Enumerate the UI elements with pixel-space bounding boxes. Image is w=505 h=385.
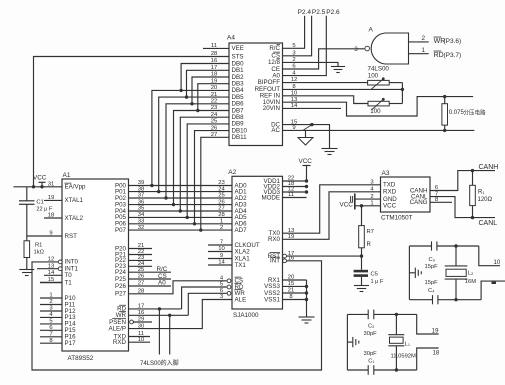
svg-text:VCC: VCC bbox=[299, 158, 313, 165]
wire pot junction vertical bbox=[401, 83, 403, 104]
capacitor C4 15pF bbox=[425, 280, 439, 304]
wire crystal2 top rail bbox=[347, 313, 416, 315]
svg-text:20VIN: 20VIN bbox=[263, 105, 280, 112]
wire P04/AD4 bus row bbox=[129, 210, 233, 212]
svg-text:ALE: ALE bbox=[235, 296, 247, 303]
wires P10-P17 stubs bbox=[40, 298, 62, 343]
svg-text:16M: 16M bbox=[465, 279, 476, 285]
ground below VSS bbox=[299, 317, 315, 323]
svg-text:120Ω: 120Ω bbox=[478, 197, 493, 203]
wire P07/AD7 bus row bbox=[129, 229, 233, 231]
svg-text:A4: A4 bbox=[227, 35, 235, 42]
wire crystal1 to pin 9 bbox=[481, 281, 505, 300]
svg-text:74LS00的入脚: 74LS00的入脚 bbox=[140, 359, 179, 367]
wire crystal2 to pin 19 bbox=[417, 314, 439, 334]
CAN controller A2 SJA1000 bbox=[218, 169, 295, 319]
svg-text:P2.5: P2.5 bbox=[312, 9, 326, 16]
wire CANH to bus bbox=[430, 171, 495, 191]
wire P26 A0 net bbox=[129, 280, 172, 287]
wire crystal2 bottom rail bbox=[347, 369, 416, 371]
svg-text:P17: P17 bbox=[65, 340, 77, 347]
wire RP1 right to node bbox=[389, 82, 402, 84]
wire P27 to SJA1000 CS bbox=[129, 281, 227, 294]
wires VDD1-MODE to VCC bbox=[283, 179, 309, 197]
svg-text:P25: P25 bbox=[115, 276, 127, 283]
wire TX0 to CTM TXD bbox=[283, 185, 381, 233]
svg-text:AT89S52: AT89S52 bbox=[68, 355, 94, 362]
svg-text:18: 18 bbox=[433, 351, 440, 357]
wire WR branch to 74LS00 input bbox=[169, 315, 171, 354]
svg-text:P2.4: P2.4 bbox=[298, 9, 312, 16]
svg-text:EA/Vpp: EA/Vpp bbox=[65, 184, 87, 191]
wire CANL to bus bbox=[430, 197, 495, 218]
wire P06/AD6 bus row bbox=[129, 223, 233, 225]
svg-text:VEE: VEE bbox=[232, 45, 244, 52]
svg-text:BIPOFF: BIPOFF bbox=[258, 79, 281, 86]
wire DB4 to P0 bus bbox=[150, 90, 229, 187]
bubble A2 INT bbox=[283, 259, 287, 263]
wire ALE to SJA1000 ALE bbox=[129, 300, 233, 329]
svg-text:T0: T0 bbox=[65, 272, 73, 279]
svg-text:AC: AC bbox=[271, 127, 280, 134]
wire T1 stub bbox=[40, 282, 62, 284]
svg-text:RST: RST bbox=[65, 233, 78, 240]
wire INT1 stub bbox=[37, 268, 58, 270]
wire XTAL1 stub bbox=[44, 199, 62, 201]
svg-text:RXD: RXD bbox=[383, 189, 397, 196]
ground below C5 bbox=[354, 277, 369, 292]
svg-text:XLA2: XLA2 bbox=[235, 248, 251, 255]
wire REFOUT pin 8 to pot node bbox=[283, 88, 405, 91]
power VCC above A2 bbox=[299, 158, 313, 181]
ground crystal1 bbox=[409, 268, 421, 278]
wire P03/AD3 bus row bbox=[129, 204, 233, 206]
svg-text:R1: R1 bbox=[35, 243, 42, 249]
svg-text:27: 27 bbox=[218, 206, 225, 212]
wire A3 GND row bbox=[355, 198, 381, 200]
svg-text:MODE: MODE bbox=[261, 194, 280, 201]
svg-text:P27: P27 bbox=[115, 291, 127, 298]
wire 20VIN pin 14 stub bbox=[283, 107, 342, 109]
resistor R7 bbox=[359, 206, 374, 248]
wire DB2 cross-tie to DB6 bbox=[190, 77, 229, 106]
wire A3 VCC row bbox=[355, 204, 381, 207]
wire REF IN pin 10 to RP2 bbox=[283, 96, 369, 104]
svg-text:15pF: 15pF bbox=[425, 280, 439, 286]
resistor R 0.075 shunt bbox=[442, 95, 486, 132]
wire DB9 to P0 bus bbox=[186, 124, 230, 219]
svg-text:A0: A0 bbox=[158, 280, 166, 287]
svg-text:10: 10 bbox=[494, 260, 501, 266]
svg-text:(P3.7): (P3.7) bbox=[444, 52, 462, 59]
wire 12/8 pin 2 to ground bbox=[283, 62, 339, 66]
svg-text:CANL: CANL bbox=[479, 220, 498, 227]
svg-text:C5: C5 bbox=[371, 271, 378, 277]
wire DB10 to P0 bus bbox=[193, 131, 229, 226]
wire P02/AD2 bus row bbox=[129, 197, 233, 199]
wire EA/Vpp row bbox=[14, 185, 63, 188]
wire P00/AD0 bus row bbox=[129, 185, 233, 187]
svg-text:11.0592M: 11.0592M bbox=[391, 354, 417, 360]
svg-text:23: 23 bbox=[218, 180, 225, 186]
svg-text:TXD: TXD bbox=[383, 182, 396, 189]
ground below R1 bbox=[19, 270, 34, 276]
svg-text:3: 3 bbox=[354, 46, 358, 53]
wire DB7 to P0 bus bbox=[172, 111, 229, 207]
svg-text:CANH: CANH bbox=[479, 164, 499, 171]
svg-text:24: 24 bbox=[218, 186, 225, 192]
power VCC symbol at EA/Vpp bbox=[33, 175, 47, 189]
svg-text:26: 26 bbox=[218, 199, 225, 205]
wire TXD stub bbox=[129, 336, 151, 338]
ground triangle on AC line bbox=[298, 130, 313, 145]
svg-text:1: 1 bbox=[220, 219, 223, 225]
svg-text:VCC: VCC bbox=[33, 175, 47, 182]
svg-text:RX0: RX0 bbox=[268, 236, 281, 243]
svg-text:30pF: 30pF bbox=[364, 331, 378, 337]
svg-text:A2: A2 bbox=[228, 169, 236, 176]
bubble A2 CS bbox=[227, 279, 231, 283]
wire STS net to left edge bbox=[34, 57, 230, 187]
gate A 74LS00 NAND mirrored bbox=[365, 27, 409, 73]
wire crystal2 to pin 18 bbox=[417, 348, 440, 370]
svg-text:SJA1000: SJA1000 bbox=[233, 312, 259, 319]
node RD(P3.7) label bbox=[434, 51, 462, 59]
svg-text:74LS00: 74LS00 bbox=[368, 65, 390, 72]
capacitor C3 15pF bbox=[425, 241, 439, 269]
wire R7 to RST node bbox=[360, 248, 363, 270]
wire NAND input pin 1 bbox=[409, 47, 429, 54]
svg-text:DB11: DB11 bbox=[232, 134, 248, 141]
wire DB5 to P0 bus bbox=[157, 97, 229, 193]
bubble A2 RST bbox=[283, 254, 287, 258]
svg-text:R: R bbox=[367, 242, 372, 248]
wire P2.6 to A0 pin 4 bbox=[283, 16, 327, 76]
svg-text:C₂: C₂ bbox=[368, 324, 374, 330]
svg-text:100: 100 bbox=[368, 73, 379, 80]
node CANH label bbox=[479, 164, 499, 171]
wire RD branch to 74LS00 input bbox=[158, 309, 160, 355]
svg-text:22 μ F: 22 μ F bbox=[36, 207, 53, 213]
svg-text:AD7: AD7 bbox=[235, 227, 248, 234]
wire DB1 cross-tie to DB5 bbox=[185, 70, 229, 99]
svg-text:P26: P26 bbox=[115, 283, 127, 290]
node P2.4 label bbox=[298, 9, 312, 16]
bubble A2 RD bbox=[227, 285, 231, 289]
svg-text:A: A bbox=[369, 27, 374, 34]
wire RD to SJA1000 RD bbox=[129, 287, 227, 311]
node CANL label bbox=[479, 220, 498, 227]
svg-text:100: 100 bbox=[370, 108, 381, 115]
svg-text:R₁: R₁ bbox=[478, 190, 484, 196]
wire DB11 to P0 bus bbox=[199, 137, 229, 232]
wire BIPOFF pin 12 to RP1 bbox=[283, 82, 368, 84]
ADC A4 AD574 bbox=[211, 35, 298, 146]
CAN transceiver A3 CTM1050T bbox=[370, 170, 439, 222]
svg-text:1kΩ: 1kΩ bbox=[34, 250, 45, 256]
resistor R1 120ohm termination bbox=[470, 169, 493, 219]
svg-text:L₁: L₁ bbox=[405, 342, 410, 348]
wires RX1 VSS to ground bbox=[283, 280, 309, 317]
svg-text:VCC: VCC bbox=[340, 202, 354, 209]
resistor R1 1k bbox=[24, 236, 45, 270]
svg-text:2: 2 bbox=[422, 35, 426, 42]
wire DB8 to P0 bus bbox=[179, 117, 229, 213]
svg-text:T1: T1 bbox=[65, 279, 73, 286]
svg-text:P2.6: P2.6 bbox=[326, 9, 340, 16]
potentiometer RP2 100 bbox=[368, 98, 389, 115]
svg-text:C₄: C₄ bbox=[428, 288, 435, 294]
ground crystal2 bbox=[347, 337, 358, 347]
wire AC analog common line bbox=[283, 129, 475, 131]
wire VEE stub bbox=[203, 47, 229, 49]
svg-text:2: 2 bbox=[220, 225, 223, 231]
wire P2.5 to CS pin 3 bbox=[283, 16, 312, 56]
svg-text:C₃: C₃ bbox=[429, 257, 436, 263]
svg-text:CANG: CANG bbox=[410, 199, 428, 206]
wire crystal1 bottom rail bbox=[409, 299, 481, 301]
svg-text:XTAL1: XTAL1 bbox=[65, 197, 84, 204]
svg-text:0.075: 0.075 bbox=[449, 110, 465, 116]
microcontroller A1 AT89S52 bbox=[48, 172, 145, 362]
svg-text:VSS1: VSS1 bbox=[264, 296, 280, 303]
wire crystal1 to pin 10 bbox=[479, 246, 501, 266]
svg-text:INT: INT bbox=[270, 258, 280, 265]
bubble A2 WR bbox=[227, 291, 231, 295]
svg-text:R/C: R/C bbox=[269, 45, 280, 52]
wire DB3 cross-tie to DB7 bbox=[196, 84, 229, 113]
node 3 label NAND output bbox=[354, 46, 358, 53]
capacitor C1 22uF bbox=[19, 187, 53, 236]
capacitor C6 decoupling with VCC bbox=[340, 194, 356, 210]
node WR(P3.6) label bbox=[434, 37, 462, 45]
node P2.6 label bbox=[326, 9, 340, 16]
svg-text:30pF: 30pF bbox=[364, 351, 378, 357]
wire P25 CS net bbox=[129, 273, 172, 280]
wire DC pin 15 to ground bbox=[283, 123, 330, 149]
svg-text:1 μ F: 1 μ F bbox=[371, 279, 384, 285]
capacitor C2 30pF bbox=[364, 310, 378, 337]
svg-text:CTM1050T: CTM1050T bbox=[381, 215, 413, 222]
wire PSEN stub bbox=[133, 321, 152, 323]
wire P24 R/C net bbox=[129, 266, 172, 273]
wire RX0 to CTM RXD bbox=[283, 192, 381, 240]
crystal L1 11.0592M bbox=[388, 313, 416, 372]
potentiometer RP1 100 bbox=[368, 73, 390, 89]
svg-text:1: 1 bbox=[422, 47, 426, 54]
svg-text:(P3.6): (P3.6) bbox=[444, 38, 462, 45]
node P2.5 label bbox=[312, 9, 326, 16]
svg-text:STS: STS bbox=[232, 53, 244, 60]
svg-text:ALE/P: ALE/P bbox=[108, 325, 126, 332]
wire CANG stub bbox=[430, 201, 452, 203]
node 74LS00 input note bbox=[140, 359, 179, 367]
svg-text:XTAL2: XTAL2 bbox=[65, 215, 84, 222]
wire crystal1 left rail bbox=[408, 246, 410, 300]
svg-text:TX1: TX1 bbox=[235, 262, 247, 269]
svg-text:28: 28 bbox=[218, 212, 225, 218]
svg-text:RD: RD bbox=[434, 52, 444, 59]
wire crystal2 left rail bbox=[346, 314, 348, 370]
wire P05/AD5 bus row bbox=[129, 216, 233, 218]
svg-text:25: 25 bbox=[218, 193, 225, 199]
wire crystal1 top rail bbox=[409, 245, 478, 247]
wire DB0 cross-tie to DB4 bbox=[179, 64, 229, 93]
wire CE pin 6 to NAND output bbox=[283, 49, 365, 69]
wire RP2 right to node bbox=[389, 103, 402, 105]
bubble PSEN bbox=[130, 320, 134, 324]
svg-text:15pF: 15pF bbox=[425, 264, 439, 270]
svg-text:C₁: C₁ bbox=[368, 359, 374, 365]
wire T0 stub bbox=[44, 274, 62, 276]
ground for DC bbox=[322, 149, 338, 155]
wire RST row bbox=[27, 235, 62, 237]
crystal L2 16M bbox=[445, 244, 477, 301]
wires CLKOUT XLA2 XLA1 TX1 stubs bbox=[208, 245, 232, 265]
svg-text:R7: R7 bbox=[367, 229, 374, 235]
wire 10VIN pin 13 to divider top bbox=[283, 97, 474, 116]
bubble INT0 bbox=[58, 260, 62, 264]
wire P01/AD1 bus row bbox=[129, 191, 233, 193]
svg-text:分压电路: 分压电路 bbox=[464, 109, 487, 117]
svg-text:VCC: VCC bbox=[383, 203, 397, 210]
wire INT to INT0 long loop bbox=[32, 261, 322, 370]
capacitor C1b 30pF bbox=[364, 351, 378, 375]
wire NAND input pin 2 bbox=[409, 35, 429, 42]
wire WR to SJA1000 WR bbox=[129, 293, 227, 317]
wire P2.4 to R/C pin 5 bbox=[283, 16, 305, 49]
wire RST row to reset node bbox=[287, 255, 362, 257]
svg-text:RXD: RXD bbox=[113, 339, 127, 346]
svg-text:A3: A3 bbox=[382, 170, 390, 177]
bubble INT1 bbox=[58, 267, 62, 271]
wire DC-AC link diagonal bbox=[303, 125, 312, 131]
svg-text:L₂: L₂ bbox=[468, 271, 473, 277]
wire XTAL2 stub bbox=[44, 217, 62, 219]
svg-text:A1: A1 bbox=[63, 172, 71, 179]
capacitor C5 1uF electrolytic bbox=[354, 270, 384, 285]
wire RXD stub bbox=[129, 341, 151, 343]
wire DB6 to P0 bus bbox=[164, 104, 229, 200]
wires P20-P23 stubs bbox=[129, 249, 153, 267]
svg-text:C1: C1 bbox=[36, 200, 43, 206]
svg-text:19: 19 bbox=[432, 329, 439, 335]
ground for 12/8 bbox=[331, 67, 345, 73]
svg-text:P07: P07 bbox=[115, 227, 127, 234]
